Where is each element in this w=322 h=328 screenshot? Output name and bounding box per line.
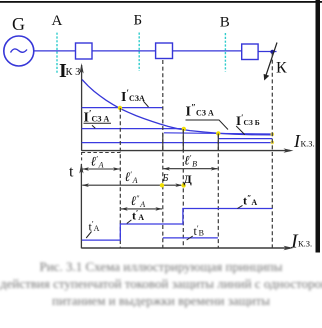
bus V tick (cyan) [224, 33, 226, 72]
svg-text:t: t [69, 164, 74, 181]
bus B tick (cyan) [138, 33, 140, 72]
zone arrow 2 (l'A long) [82, 184, 181, 186]
leader bracket to curve [186, 120, 229, 130]
pickup line lower right [218, 138, 272, 140]
step vertical at B zone end [217, 134, 219, 151]
dashed axis continuation [81, 152, 83, 162]
yellow dot B [160, 183, 164, 187]
bottom graph x-axis [81, 247, 290, 249]
yellow dot at fault line lower [271, 141, 275, 145]
time staircase A [82, 209, 272, 241]
svg-text:Д: Д [184, 172, 193, 186]
zone arrow 1 (l'A) [82, 168, 120, 170]
fault lightning arrow [266, 43, 277, 77]
figure caption (blurred) line 3 [0, 293, 322, 309]
dashed separator segment [82, 152, 121, 154]
leader to line1 [143, 101, 148, 107]
bus A tick (cyan) [56, 33, 58, 74]
yellow node dot 2 [182, 127, 186, 131]
svg-text:В: В [220, 15, 230, 31]
pickup line I'сзА lower (level 2) [82, 128, 184, 130]
wire Q1 to Q2 [92, 50, 156, 52]
leader to line [236, 126, 245, 135]
dashed zone line V2 [162, 60, 164, 248]
zone arrow 4 (l'B) [163, 168, 217, 170]
svg-text:Б: Б [134, 13, 143, 29]
svg-text:Б: Б [162, 173, 169, 184]
fault point dot K [270, 50, 274, 54]
breaker Q3 [242, 44, 258, 60]
wire Q2 to Q3 [173, 50, 242, 52]
generator G1 circle [4, 36, 34, 66]
short-circuit current decay curve [82, 80, 272, 135]
pickup line bottom (full) [82, 142, 273, 144]
yellow dot D [181, 183, 185, 187]
yellow dot at fault line upper [271, 132, 275, 136]
generator sine symbol [11, 49, 28, 53]
zone arrow 3 (l''A) [121, 208, 162, 210]
figure caption (blurred) line 1 [0, 259, 322, 275]
pickup line I'сзБ [164, 133, 272, 134]
yellow node dot 3 [216, 131, 220, 135]
svg-text:G: G [12, 14, 25, 34]
dashed zone line V4 [217, 134, 219, 249]
leader tick to line2 [92, 125, 95, 128]
time staircase B [163, 237, 218, 239]
breaker Q1 [76, 43, 93, 59]
step vertical at zone 2 end [162, 133, 164, 150]
right frame border [316, 0, 321, 253]
dashed zone line V1 [119, 108, 121, 248]
wire Q3 to fault [258, 51, 276, 53]
t axis (bottom graph) [80, 164, 82, 248]
svg-text:К.З.: К.З. [301, 139, 315, 149]
yellow node dot 1 [118, 106, 122, 110]
dashed zone line V5 (fault) [271, 53, 273, 248]
svg-text:К З: К З [66, 67, 81, 78]
dashed zone line V3 [182, 129, 184, 248]
pickup line I'сзА (level 1) [82, 107, 163, 109]
wire generator to breaker Q1 [34, 50, 76, 52]
figure caption (blurred) line 2 [0, 276, 322, 292]
step vertical at zone 3 end [182, 129, 184, 150]
svg-text:К: К [276, 60, 287, 77]
top frame border [0, 1, 322, 3]
breaker Q2 [156, 43, 173, 59]
svg-text:А: А [52, 13, 63, 29]
svg-text:К.З.: К.З. [298, 239, 312, 249]
I axis (middle graph y-axis) [81, 65, 83, 151]
middle graph x-axis [82, 150, 290, 152]
